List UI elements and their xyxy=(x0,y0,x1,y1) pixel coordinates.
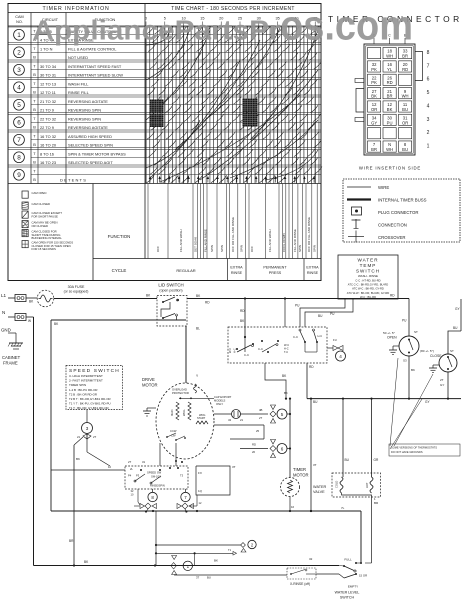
cam row 3 xyxy=(8,60,321,77)
svg-text:HOT: HOT xyxy=(365,482,369,488)
svg-text:FULL: FULL xyxy=(344,558,352,562)
wire motor loop xyxy=(175,425,264,463)
wire feed vertical xyxy=(284,391,291,478)
svg-text:FILL AND WASH: FILL AND WASH xyxy=(268,229,272,252)
water valve xyxy=(313,399,381,563)
svg-text:RINSE/SPIN: RINSE/SPIN xyxy=(150,484,165,488)
svg-text:TIME CHART - 180 SECONDS PER I: TIME CHART - 180 SECONDS PER INCREMENT xyxy=(171,6,294,12)
svg-text:OPEN: OPEN xyxy=(387,336,397,340)
svg-text:16 TO 32: 16 TO 32 xyxy=(40,134,56,139)
svg-text:GY: GY xyxy=(371,120,377,125)
svg-text:2: 2 xyxy=(427,130,430,136)
L1 plug connector xyxy=(8,295,38,304)
svg-text:TIMER SPIN: TIMER SPIN xyxy=(69,383,86,387)
svg-text:C-C: C-C xyxy=(244,353,249,357)
svg-text:2T: 2T xyxy=(440,378,444,382)
svg-text:DET SOAK: DET SOAK xyxy=(194,237,198,252)
svg-text:OR: OR xyxy=(371,107,377,112)
thermostat S2 CLOSE xyxy=(420,299,461,399)
neutral rail wire xyxy=(33,317,35,566)
svg-text:SPIN & TIMER MOTOR BYPASS: SPIN & TIMER MOTOR BYPASS xyxy=(68,151,126,156)
svg-text:B: B xyxy=(33,55,36,60)
svg-text:BK: BK xyxy=(214,559,218,563)
connector left tabs xyxy=(355,79,364,122)
svg-text:3- HIGH INTERMITTENT: 3- HIGH INTERMITTENT xyxy=(69,374,103,378)
svg-text:C-C: C-C xyxy=(258,347,263,351)
N plug connector xyxy=(8,314,34,324)
svg-text:21: 21 xyxy=(240,418,244,422)
wire connector 6 right xyxy=(310,399,317,512)
svg-text:ONLY: ONLY xyxy=(216,402,223,406)
svg-text:BR: BR xyxy=(387,94,393,99)
svg-text:RD: RD xyxy=(402,67,408,72)
svg-text:OFF OR FILL AND RINSE: OFF OR FILL AND RINSE xyxy=(231,217,235,252)
svg-text:COLD: COLD xyxy=(335,481,339,488)
svg-text:(open position): (open position) xyxy=(159,289,182,293)
svg-text:BU: BU xyxy=(207,576,211,580)
thermostat S2 ground xyxy=(429,365,439,373)
svg-text:7: 7 xyxy=(17,137,21,144)
svg-text:INTERMITTANT SPEED SLOW: INTERMITTANT SPEED SLOW xyxy=(68,72,123,77)
cam row 9 xyxy=(8,165,321,182)
connector 8 xyxy=(131,489,158,513)
svg-text:4B: 4B xyxy=(259,408,263,412)
svg-text:SELECTED SPEED SPIN: SELECTED SPEED SPIN xyxy=(68,142,113,147)
svg-text:3: 3 xyxy=(427,117,430,123)
cam row 4 xyxy=(8,78,321,95)
svg-text:FX: FX xyxy=(198,471,202,475)
detent arrows xyxy=(149,176,316,183)
svg-text:B: B xyxy=(33,90,36,95)
svg-text:2T: 2T xyxy=(128,460,132,464)
svg-text:N: N xyxy=(2,310,5,315)
svg-text:B: B xyxy=(33,177,36,182)
svg-text:BR: BR xyxy=(402,54,408,59)
svg-text:ST: ST xyxy=(450,349,454,353)
water temp switch legend box xyxy=(338,255,398,299)
svg-text:BK: BK xyxy=(411,368,415,372)
svg-text:MAIN: MAIN xyxy=(170,409,174,416)
svg-text:1Q: 1Q xyxy=(198,489,203,493)
svg-text:BK: BK xyxy=(76,457,80,461)
svg-text:OR: OR xyxy=(402,120,408,125)
svg-text:RD: RD xyxy=(252,443,256,447)
svg-text:RINSE: RINSE xyxy=(231,271,243,275)
svg-text:FU: FU xyxy=(333,338,337,342)
svg-text:INTERMITTANT SPEED FAST: INTERMITTANT SPEED FAST xyxy=(68,64,122,69)
connector 7 xyxy=(177,489,202,513)
svg-text:T2 B T : BK-OR,GY-BK1 RD-OR: T2 B T : BK-OR,GY-BK1 RD-OR xyxy=(69,397,111,401)
thermostat note xyxy=(389,358,460,456)
svg-text:50 +/- 5°: 50 +/- 5° xyxy=(383,331,396,335)
svg-text:BK: BK xyxy=(387,107,393,112)
svg-text:WDG: WDG xyxy=(182,410,186,416)
svg-text:FRAME: FRAME xyxy=(3,361,18,366)
svg-text:CABINET: CABINET xyxy=(2,355,21,360)
drive motor xyxy=(142,377,214,459)
svg-text:OFF: OFF xyxy=(250,246,254,252)
svg-text:ST: ST xyxy=(414,330,418,334)
table header titles xyxy=(15,6,294,24)
svg-text:YL: YL xyxy=(387,67,393,72)
svg-text:WATER: WATER xyxy=(357,258,378,263)
ground GND xyxy=(1,328,23,350)
svg-text:CAM CLOSED: CAM CLOSED xyxy=(32,202,51,206)
thermostat bus wire xyxy=(307,398,461,405)
svg-text:T1 T : BK-OR, GY-BK1 RD-OR: T1 T : BK-OR, GY-BK1 RD-OR xyxy=(69,406,109,410)
svg-text:CAM: CAM xyxy=(15,15,23,19)
svg-text:EXTRA: EXTRA xyxy=(230,266,243,270)
symbol legend box xyxy=(343,179,460,243)
svg-text:10: 10 xyxy=(108,465,112,469)
svg-text:PERMANENT: PERMANENT xyxy=(263,266,287,270)
wire rectangle loop xyxy=(196,465,236,495)
svg-text:16 TO 20: 16 TO 20 xyxy=(40,142,57,147)
wire lid switch down to drive motor xyxy=(186,326,200,383)
svg-text:W: W xyxy=(28,319,31,323)
svg-text:TIMER: TIMER xyxy=(293,467,306,472)
svg-text:MOTOR: MOTOR xyxy=(293,473,309,478)
svg-text:7: 7 xyxy=(427,63,430,69)
svg-text:MOTOR: MOTOR xyxy=(142,383,158,388)
svg-text:6: 6 xyxy=(427,77,430,83)
svg-text:C-C: C-C xyxy=(293,335,298,339)
cam row 1 xyxy=(8,27,321,42)
svg-text:DRIVE: DRIVE xyxy=(142,377,155,382)
svg-text:1-2 B : BK-PU RD-OR: 1-2 B : BK-PU RD-OR xyxy=(69,388,97,392)
svg-text:MODELS: MODELS xyxy=(214,399,226,403)
svg-text:ATC C-C : BK-RD,GY-RD, BU-RD: ATC C-C : BK-RD,GY-RD, BU-RD xyxy=(348,283,389,287)
svg-text:2T: 2T xyxy=(259,416,263,420)
lid switch xyxy=(157,283,187,327)
svg-text:H-C: H-C xyxy=(284,347,289,351)
svg-text:GND: GND xyxy=(1,328,11,333)
connector 3 xyxy=(77,410,97,439)
svg-text:CROSSOVER: CROSSOVER xyxy=(378,235,405,240)
svg-text:6: 6 xyxy=(281,447,284,452)
svg-text:1 TO N: 1 TO N xyxy=(40,46,53,51)
svg-text:WATER LEVEL: WATER LEVEL xyxy=(335,591,360,595)
svg-text:DO NOT HAVE GROUNDS: DO NOT HAVE GROUNDS xyxy=(391,450,423,454)
svg-text:BK: BK xyxy=(284,391,288,395)
connector right bracket xyxy=(415,52,423,81)
fuse F1 30A xyxy=(37,285,157,307)
svg-text:H-C: H-C xyxy=(318,334,323,338)
svg-text:T-C: T-C xyxy=(284,350,288,354)
svg-text:RINSE: RINSE xyxy=(307,271,319,275)
svg-text:ATC W-C : BK-RD, GY-RD: ATC W-C : BK-RD, GY-RD xyxy=(352,287,384,291)
wire tap to middle temp contact xyxy=(284,297,286,327)
svg-text:30A FUSE: 30A FUSE xyxy=(68,285,85,289)
svg-text:OR CLOSED: OR CLOSED xyxy=(32,224,48,228)
svg-text:RD: RD xyxy=(205,301,210,305)
svg-text:SWITCH: SWITCH xyxy=(356,269,380,274)
svg-text:PU: PU xyxy=(387,120,393,125)
connector 2 xyxy=(155,511,256,566)
svg-text:4: 4 xyxy=(427,103,430,109)
svg-text:(or so equipped): (or so equipped) xyxy=(64,290,89,294)
svg-text:WASH - RINSE: WASH - RINSE xyxy=(358,274,378,278)
svg-text:VALVE: VALVE xyxy=(313,490,325,494)
svg-text:WDG: WDG xyxy=(199,413,205,417)
svg-text:REGULAR: REGULAR xyxy=(176,268,195,273)
speed switch contacts xyxy=(125,466,188,489)
svg-text:5: 5 xyxy=(281,412,284,417)
svg-text:WASH FILL: WASH FILL xyxy=(68,81,89,86)
bus wire lower xyxy=(51,506,361,563)
svg-text:OVERLOAD: OVERLOAD xyxy=(172,388,187,392)
svg-text:PU: PU xyxy=(295,304,300,308)
svg-text:BU: BU xyxy=(453,326,458,330)
svg-text:PROTECTOR: PROTECTOR xyxy=(172,391,189,395)
connector 1 xyxy=(171,556,313,575)
svg-text:9: 9 xyxy=(17,172,21,179)
svg-text:12 TO 11: 12 TO 11 xyxy=(40,90,56,95)
svg-text:16: 16 xyxy=(291,505,295,509)
water valve connector 4 xyxy=(327,338,346,361)
svg-text:BL: BL xyxy=(196,327,200,331)
svg-text:SPIN: SPIN xyxy=(313,245,317,252)
svg-text:3T: 3T xyxy=(232,465,236,469)
svg-text:16 TO 23: 16 TO 23 xyxy=(40,160,56,165)
thermostat S1 OPEN xyxy=(383,299,419,399)
svg-text:7L: 7L xyxy=(341,506,345,510)
svg-text:EMPTY: EMPTY xyxy=(348,585,358,589)
drive motor ground xyxy=(143,408,156,416)
svg-text:FILL AND RINSE: FILL AND RINSE xyxy=(204,229,208,252)
cam row 5 xyxy=(8,95,321,112)
svg-text:WH: WH xyxy=(402,94,409,99)
svg-text:SPIN: SPIN xyxy=(210,245,214,252)
cam closure diagonal marks xyxy=(147,27,323,183)
svg-text:GY: GY xyxy=(440,383,444,387)
svg-text:ASSURED HIGH SPEED: ASSURED HIGH SPEED xyxy=(68,134,112,139)
connector 5 xyxy=(241,405,291,423)
function zone columns xyxy=(148,184,317,259)
svg-text:31: 31 xyxy=(142,460,146,464)
svg-text:SPIN: SPIN xyxy=(298,245,302,252)
svg-text:NO.: NO. xyxy=(16,20,23,24)
svg-text:PK: PK xyxy=(371,67,377,72)
cam row 6 xyxy=(8,113,321,130)
svg-text:WH: WH xyxy=(386,147,393,152)
svg-text:22 TO 9: 22 TO 9 xyxy=(40,125,54,130)
svg-text:NOT USED: NOT USED xyxy=(68,55,88,60)
svg-text:22 TO 32: 22 TO 32 xyxy=(40,116,56,121)
svg-text:B: B xyxy=(33,125,36,130)
bottom rail wire xyxy=(34,560,340,567)
svg-text:W-C: W-C xyxy=(284,343,289,347)
svg-text:GR: GR xyxy=(374,458,379,462)
svg-text:2- FAST INTERMITTENT: 2- FAST INTERMITTENT xyxy=(69,379,103,383)
svg-text:5: 5 xyxy=(427,90,430,96)
svg-text:INTERNAL TIMER BUSS: INTERNAL TIMER BUSS xyxy=(378,198,427,203)
svg-text:PU: PU xyxy=(330,312,335,316)
svg-text:AppliancePartsPr: AppliancePartsPr xyxy=(33,15,281,46)
main enclosure wire xyxy=(51,320,186,511)
svg-text:20: 20 xyxy=(252,450,256,454)
svg-text:RD: RD xyxy=(390,294,395,298)
svg-text:T1 Y T : BK-PU, GY-BK1 RD-PU: T1 Y T : BK-PU, GY-BK1 RD-PU xyxy=(69,401,111,405)
cam row 2 xyxy=(8,43,321,60)
svg-text:SELECTED SPEED AGIT: SELECTED SPEED AGIT xyxy=(68,160,113,165)
svg-text:H-C: H-C xyxy=(233,348,237,353)
svg-text:6: 6 xyxy=(17,120,21,127)
svg-text:CAP EXPORT: CAP EXPORT xyxy=(214,395,232,399)
svg-text:COOL DOWN: COOL DOWN xyxy=(282,233,286,252)
svg-text:PK: PK xyxy=(371,80,377,85)
svg-text:(80 +/- 5°): (80 +/- 5°) xyxy=(420,349,434,353)
dark cam closed blocks xyxy=(150,99,258,128)
svg-text:BU: BU xyxy=(313,400,318,404)
svg-text:FILL AND WASH: FILL AND WASH xyxy=(179,229,183,252)
svg-text:1: 1 xyxy=(17,32,21,39)
svg-text:W-C: W-C xyxy=(228,348,232,353)
svg-text:43: 43 xyxy=(228,418,232,422)
thermostat S1 ground xyxy=(389,346,399,355)
svg-text:2: 2 xyxy=(17,50,21,57)
cam row 8 xyxy=(8,148,321,165)
svg-text:SWITCH: SWITCH xyxy=(340,596,355,600)
svg-text:S3: S3 xyxy=(403,359,407,363)
svg-text:TIMER INFORMATION: TIMER INFORMATION xyxy=(42,6,109,12)
svg-text:WIRE INSERTION SIDE: WIRE INSERTION SIDE xyxy=(359,166,421,171)
speed switch legend box xyxy=(66,366,123,410)
svg-text:21 TO 32: 21 TO 32 xyxy=(40,99,56,104)
svg-text:DETENTS: DETENTS xyxy=(60,177,87,182)
svg-text:TEMP: TEMP xyxy=(360,263,377,268)
svg-text:P3: P3 xyxy=(136,474,140,478)
svg-text:25: 25 xyxy=(256,429,260,433)
svg-text:3T: 3T xyxy=(196,576,200,580)
wire connector 3 to speed switch contacts xyxy=(69,437,110,566)
svg-text:BU: BU xyxy=(345,458,350,462)
svg-text:OFF: OFF xyxy=(156,246,160,252)
svg-text:21 TO 9: 21 TO 9 xyxy=(40,107,54,112)
svg-text:WH: WH xyxy=(386,54,393,59)
svg-text:OFF OR FILL AND RINSE: OFF OR FILL AND RINSE xyxy=(307,217,311,252)
svg-text:CONNECTION: CONNECTION xyxy=(378,223,407,228)
svg-text:CYCLE: CYCLE xyxy=(112,268,127,273)
svg-text:FILL & AGITATE CONTROL: FILL & AGITATE CONTROL xyxy=(68,46,117,51)
svg-text:3: 3 xyxy=(17,67,21,74)
svg-text:B: B xyxy=(33,142,36,147)
svg-text:WIRE: WIRE xyxy=(378,185,389,190)
svg-text:FUNCTION: FUNCTION xyxy=(108,234,131,239)
svg-text:SOME VERSIONS OF THERMOSTATS: SOME VERSIONS OF THERMOSTATS xyxy=(391,446,437,450)
svg-text:1: 1 xyxy=(427,143,430,149)
svg-text:BK: BK xyxy=(371,94,377,99)
svg-text:X-RINSE (off): X-RINSE (off) xyxy=(290,582,310,586)
svg-text:CAM OPEN: CAM OPEN xyxy=(32,191,47,195)
svg-text:SPIN: SPIN xyxy=(220,245,224,252)
timer connector body xyxy=(364,34,430,156)
svg-text:RD: RD xyxy=(309,365,314,369)
svg-text:8: 8 xyxy=(17,155,21,162)
svg-text:4: 4 xyxy=(17,85,21,92)
wire tap to water temp contacts xyxy=(240,297,246,337)
svg-text:P4: P4 xyxy=(128,474,132,478)
x-rinse switch xyxy=(174,568,339,586)
svg-text:32: 32 xyxy=(309,557,313,561)
svg-text:B: B xyxy=(33,72,36,77)
svg-text:SPIN: SPIN xyxy=(240,245,244,252)
svg-text:BU: BU xyxy=(402,107,408,112)
svg-text:REVERSING SPIN: REVERSING SPIN xyxy=(68,107,101,112)
svg-text:30 TO 31: 30 TO 31 xyxy=(40,72,56,77)
svg-text:PLUG CONNECTOR: PLUG CONNECTOR xyxy=(378,210,419,215)
wires water temp switch box to contacts xyxy=(295,299,353,327)
svg-text:B: B xyxy=(33,160,36,165)
svg-text:4: 4 xyxy=(339,354,342,359)
svg-text:SPEED SW: SPEED SW xyxy=(147,471,162,475)
svg-text:12 TO 13: 12 TO 13 xyxy=(40,81,56,86)
cycle row xyxy=(93,184,321,281)
timer information table frame xyxy=(8,4,321,281)
capacitor xyxy=(214,395,244,422)
svg-text:B: B xyxy=(33,107,36,112)
cam profile sweep curves xyxy=(146,27,318,182)
svg-text:SPEED SWITCH: SPEED SWITCH xyxy=(69,368,120,374)
svg-text:PRESS: PRESS xyxy=(269,271,282,275)
svg-text:BU: BU xyxy=(402,147,408,152)
time scale numbers xyxy=(145,17,317,27)
svg-text:os.com: os.com xyxy=(280,2,413,49)
svg-text:FILL AND RINSE: FILL AND RINSE xyxy=(293,229,297,252)
svg-text:8 TO 16: 8 TO 16 xyxy=(40,151,54,156)
svg-text:BR: BR xyxy=(371,147,377,152)
wire lid switch to thermostat rail xyxy=(187,294,409,305)
wires motor to speed switch xyxy=(51,443,176,470)
cabinet frame label xyxy=(2,355,21,366)
svg-text:BR: BR xyxy=(69,539,74,543)
svg-text:3T: 3T xyxy=(313,463,317,467)
cam row 7 xyxy=(8,130,321,147)
svg-text:FOR 15 SECONDS: FOR 15 SECONDS xyxy=(32,247,57,251)
svg-text:REVERSING AGITATE: REVERSING AGITATE xyxy=(68,125,108,130)
svg-text:BU: BU xyxy=(318,314,323,318)
svg-text:15 OR: 15 OR xyxy=(359,574,367,578)
svg-text:30 TO 34: 30 TO 34 xyxy=(40,64,57,69)
wire temp contacts bottom exits xyxy=(265,363,314,400)
svg-text:8: 8 xyxy=(427,50,430,56)
svg-text:FOR SHORT PAUSE: FOR SHORT PAUSE xyxy=(32,214,59,218)
water level switch xyxy=(335,558,372,600)
svg-text:CCW: CCW xyxy=(170,429,177,433)
svg-text:3: 3 xyxy=(86,426,89,431)
svg-text:BUFFERING INTERVAL: BUFFERING INTERVAL xyxy=(32,236,63,240)
svg-text:REVERSING SPIN: REVERSING SPIN xyxy=(68,116,101,121)
svg-text:REVERSING AGITATE: REVERSING AGITATE xyxy=(68,99,108,104)
svg-text:RINSE FILL: RINSE FILL xyxy=(68,90,90,95)
connector 6 xyxy=(240,440,290,458)
svg-text:PU: PU xyxy=(402,319,407,323)
svg-text:EXTRA: EXTRA xyxy=(306,266,319,270)
svg-text:L1: L1 xyxy=(1,293,7,298)
svg-text:WATER: WATER xyxy=(313,485,327,489)
svg-text:21: 21 xyxy=(77,435,81,439)
water temperature switch contacts xyxy=(228,327,327,363)
svg-text:C-C : HT-RD, BU-RD: C-C : HT-RD, BU-RD xyxy=(355,278,380,282)
svg-text:RD: RD xyxy=(387,80,393,85)
timer motor xyxy=(281,467,309,511)
svg-text:RD: RD xyxy=(240,309,245,313)
svg-text:ATC W-W : BK-OR, BU-RD, GY-RD: ATC W-W : BK-OR, BU-RD, GY-RD xyxy=(347,291,390,295)
time chart grid xyxy=(145,26,321,184)
svg-text:5: 5 xyxy=(17,102,21,109)
svg-text:2T: 2T xyxy=(93,435,97,439)
svg-text:LID SWITCH: LID SWITCH xyxy=(158,283,183,288)
